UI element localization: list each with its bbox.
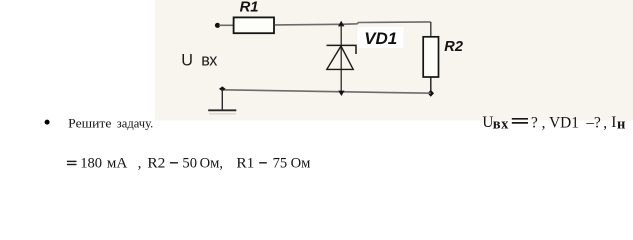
svg-text:Ом: Ом <box>291 155 311 171</box>
ground shadow artifact <box>209 113 236 115</box>
node input terminal <box>215 23 220 28</box>
diode VD1 triangle <box>327 46 353 69</box>
svg-text:VD1: VD1 <box>549 114 579 131</box>
scanned image background <box>155 0 633 121</box>
equals sign of Uvx <box>512 119 528 123</box>
svg-text:вх: вх <box>201 51 217 69</box>
ground <box>208 109 236 111</box>
svg-text:U: U <box>181 51 193 69</box>
resistor R2 <box>423 37 438 77</box>
text: = 180 mA , R2 - 50 Om, R1 - 75 Om <box>80 155 310 171</box>
svg-text:180: 180 <box>80 155 102 171</box>
junction arrow at top of VD1 <box>338 21 344 27</box>
node R2 bottom junction <box>428 90 434 97</box>
label background VD1 <box>358 27 404 48</box>
svg-text:Ом,: Ом, <box>200 155 223 171</box>
svg-text:–?: –? <box>585 114 601 131</box>
svg-text:R1: R1 <box>236 155 254 171</box>
diode VD1 cathode bar <box>327 45 357 54</box>
label U vx <box>181 51 217 69</box>
node ground junction <box>219 86 226 91</box>
wire VD1 vertical <box>340 25 342 92</box>
svg-text:R1: R1 <box>240 0 259 15</box>
wire input to R1 <box>219 24 233 26</box>
resistor R1 <box>234 17 274 33</box>
dash R2 value <box>170 162 178 164</box>
wire R1 to top junction <box>275 23 341 26</box>
equals sign of line 2 <box>67 161 77 164</box>
bullet <box>45 120 50 125</box>
text: Uvx = ? , VD1 -? , In <box>482 114 625 132</box>
svg-text:мА: мА <box>107 155 128 171</box>
svg-text:R2: R2 <box>147 155 165 171</box>
wire bottom rail <box>222 90 430 93</box>
svg-text:R2: R2 <box>444 39 463 55</box>
dash R1 value <box>259 162 267 164</box>
svg-text:75: 75 <box>273 155 288 171</box>
svg-text:Решите: Решите <box>68 116 111 131</box>
svg-text:вх: вх <box>493 116 509 132</box>
svg-text:,: , <box>603 114 607 131</box>
svg-text:н: н <box>617 116 625 132</box>
wire R2 top stem <box>430 22 432 37</box>
junction arrow at bottom of VD1 <box>338 91 344 96</box>
wire R2 bottom stem <box>430 77 432 93</box>
svg-text:,: , <box>138 155 142 171</box>
svg-text:50: 50 <box>182 155 197 171</box>
svg-text:,: , <box>542 114 546 131</box>
wire top junction to R2 corner <box>341 22 431 24</box>
text: Reshite zadachu <box>68 116 153 131</box>
svg-text:VD1: VD1 <box>364 29 397 48</box>
svg-text:?: ? <box>531 114 538 131</box>
wire ground stem <box>221 89 223 110</box>
svg-text:задачу.: задачу. <box>117 116 154 131</box>
svg-text:I: I <box>611 114 616 131</box>
